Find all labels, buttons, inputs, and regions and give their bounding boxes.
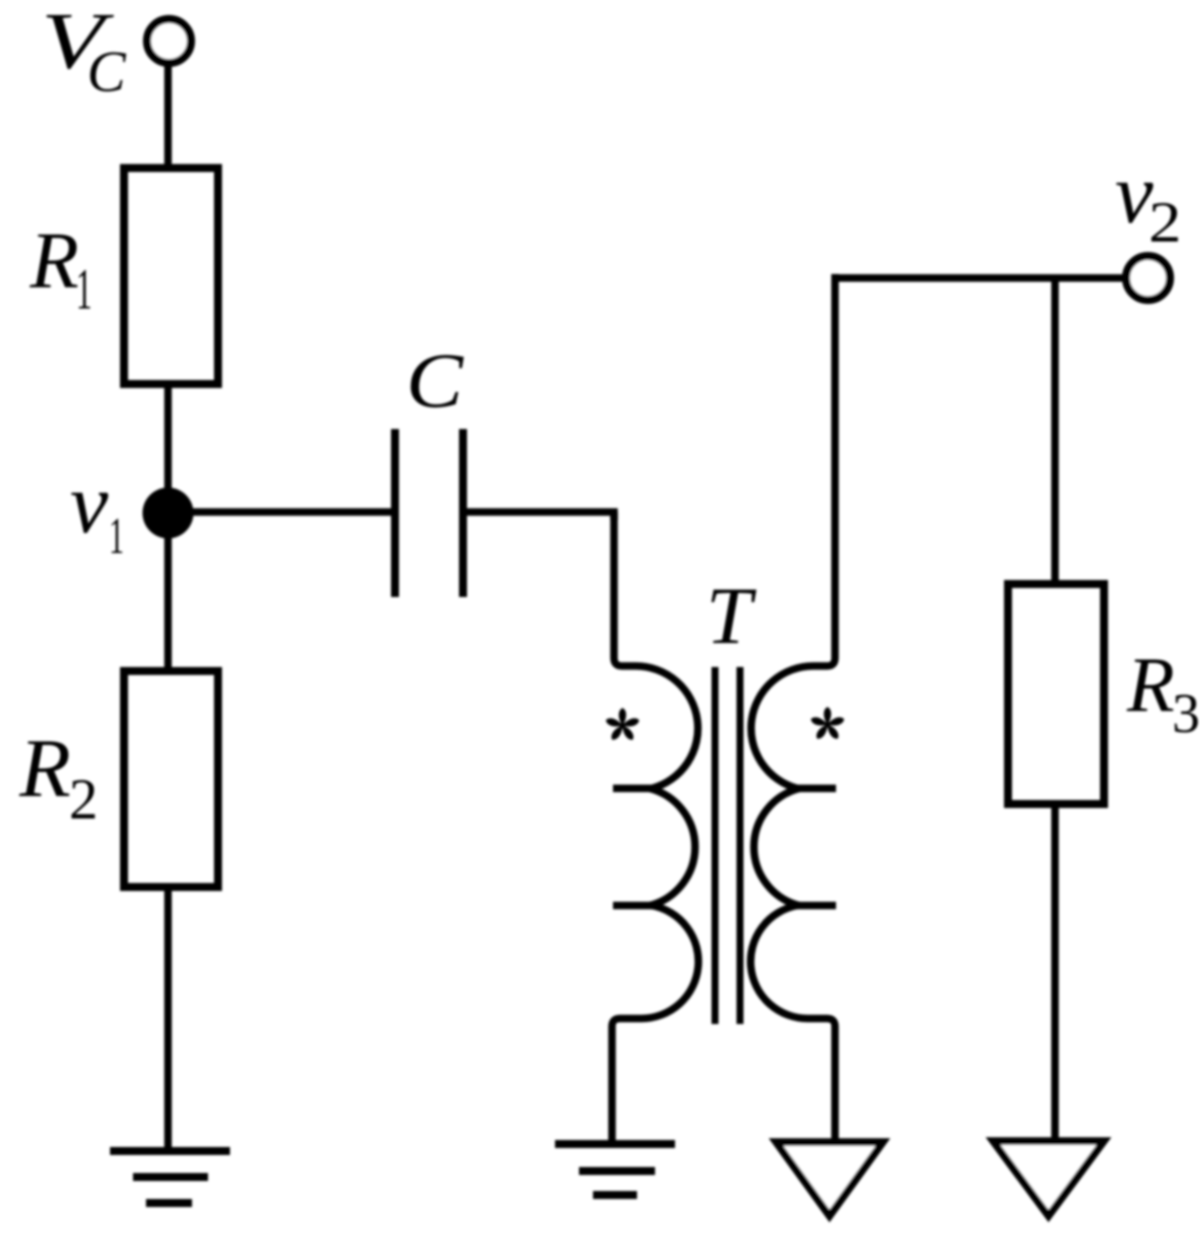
svg-text:R: R — [1126, 641, 1175, 728]
terminal v2 — [1126, 256, 1170, 300]
wire to v2 terminal — [832, 274, 1127, 282]
resistor R2 — [124, 671, 218, 887]
secondary winding tick 1 — [794, 785, 836, 793]
secondary winding tick 2 — [794, 902, 836, 910]
svg-text:1: 1 — [109, 508, 124, 565]
svg-text:2: 2 — [1149, 190, 1182, 255]
resistor R1 — [124, 168, 218, 384]
wire capacitor to transformer primary — [467, 512, 614, 520]
ground triangle (below R3) — [993, 1141, 1104, 1216]
terminal VC — [147, 19, 191, 63]
secondary dot marker (asterisk) — [811, 707, 844, 739]
wire R1 to R2 — [164, 384, 172, 671]
svg-text:3: 3 — [1172, 683, 1200, 745]
node v1 junction dot — [143, 488, 194, 539]
transformer T primary winding — [614, 512, 698, 788]
svg-text:R: R — [29, 217, 79, 305]
svg-text:1: 1 — [76, 257, 92, 322]
ground triangle (below secondary) — [776, 1142, 883, 1216]
resistor R3 — [1008, 584, 1104, 804]
wire R2 to ground — [164, 887, 172, 1150]
capacitor C left plate — [391, 429, 399, 597]
svg-text:C: C — [87, 39, 127, 104]
transformer T core — [712, 667, 719, 1024]
wire VC to R1 — [164, 63, 172, 172]
ground (below R2) — [110, 1147, 230, 1155]
primary winding tick 2 — [613, 902, 655, 910]
svg-text:R: R — [19, 722, 71, 815]
primary dot marker (asterisk) — [606, 708, 639, 740]
wire R3 to triangle ground — [1051, 804, 1059, 1142]
transformer T secondary winding — [751, 274, 835, 788]
primary winding tick 1 — [613, 785, 655, 793]
svg-text:2: 2 — [69, 767, 98, 832]
capacitor C right plate — [459, 429, 467, 597]
svg-text:v: v — [70, 455, 109, 551]
wire v2 net to R3 — [1051, 278, 1059, 584]
svg-text:C: C — [406, 337, 464, 424]
svg-text:T: T — [706, 570, 757, 661]
wire v1 to capacitor — [168, 508, 391, 516]
ground (below primary) — [555, 1140, 675, 1148]
